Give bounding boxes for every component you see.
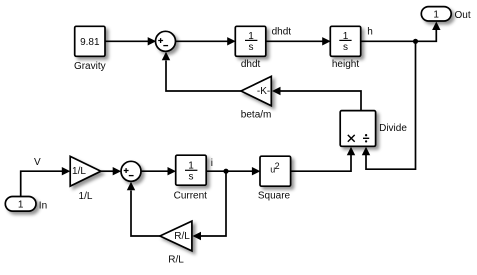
wire height to Out port (signal h)	[361, 30, 436, 42]
wire Gravity to Sum1	[105, 40, 148, 42]
svg-text:s: s	[189, 172, 194, 183]
wire Square to Divide first input	[291, 155, 351, 172]
svg-text:dhdt: dhdt	[272, 27, 292, 38]
wire beta/m to Sum1 bottom input	[166, 61, 241, 92]
node junction on i wire	[223, 169, 228, 174]
svg-text:height: height	[332, 59, 359, 70]
svg-text:2: 2	[275, 161, 280, 171]
wire h junction down to Divide second input	[366, 41, 416, 169]
wire In port to 1/L gain (signal V)	[21, 171, 62, 196]
integrator block dhdt 1/s	[235, 26, 265, 70]
svg-text:1: 1	[433, 9, 439, 20]
svg-text:Current: Current	[174, 190, 208, 201]
svg-text:Square: Square	[258, 190, 291, 201]
svg-text:Out: Out	[455, 10, 471, 21]
wire Current to Square (signal i)	[207, 170, 253, 172]
wire dhdt to height integrator (signal dhdt)	[266, 40, 323, 42]
integrator block height 1/s	[330, 26, 360, 70]
wire 1/L to Sum2	[101, 170, 113, 172]
svg-text:R/L: R/L	[174, 231, 190, 242]
math block Square u^2	[258, 156, 291, 201]
svg-text:1/L: 1/L	[79, 191, 93, 202]
constant block Gravity 9.81	[74, 26, 106, 72]
svg-text:R/L: R/L	[168, 255, 184, 266]
output port Out	[421, 7, 471, 22]
svg-text:Divide: Divide	[379, 123, 407, 134]
svg-text:s: s	[343, 42, 348, 53]
gain block beta/m -K-	[241, 76, 272, 120]
wire Divide output to beta/m gain	[281, 91, 362, 111]
wire R/L to Sum2 bottom input	[131, 191, 160, 237]
sum block Sum2	[121, 161, 141, 181]
node junction on h wire	[413, 39, 418, 44]
svg-text:dhdt: dhdt	[241, 59, 261, 70]
sum block Sum1	[156, 31, 176, 51]
wire Sum1 to dhdt integrator	[176, 40, 228, 42]
gain block R/L	[160, 221, 192, 266]
svg-text:Gravity: Gravity	[74, 61, 106, 72]
svg-text:s: s	[249, 42, 254, 53]
svg-text:9.81: 9.81	[80, 37, 100, 48]
svg-text:In: In	[39, 200, 47, 211]
gain block 1/L	[70, 156, 101, 202]
svg-text:1: 1	[18, 199, 24, 210]
svg-text:-K-: -K-	[257, 86, 270, 97]
svg-text:h: h	[367, 27, 373, 38]
svg-text:i: i	[211, 158, 213, 169]
integrator block Current 1/s	[174, 155, 208, 201]
wire Sum2 to Current integrator	[141, 170, 168, 172]
svg-text:V: V	[34, 157, 41, 168]
input port In	[5, 197, 47, 212]
divide block	[340, 111, 407, 147]
svg-text:beta/m: beta/m	[241, 110, 272, 121]
wire i junction down to R/L gain input	[201, 171, 226, 236]
svg-text:1/L: 1/L	[72, 166, 86, 177]
